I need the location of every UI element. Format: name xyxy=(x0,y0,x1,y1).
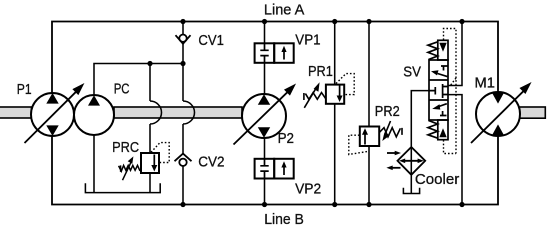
svg-text:PR2: PR2 xyxy=(375,104,400,120)
svg-text:VP2: VP2 xyxy=(295,181,321,197)
svg-text:CV1: CV1 xyxy=(198,33,224,49)
svg-text:Cooler: Cooler xyxy=(415,172,459,188)
svg-text:PR1: PR1 xyxy=(308,64,333,80)
svg-text:P2: P2 xyxy=(278,131,294,147)
svg-text:CV2: CV2 xyxy=(198,154,224,170)
svg-text:PC: PC xyxy=(114,82,130,98)
svg-text:Line B: Line B xyxy=(264,212,304,228)
svg-text:SV: SV xyxy=(403,65,421,81)
svg-text:Line A: Line A xyxy=(264,3,305,19)
svg-text:M1: M1 xyxy=(475,76,496,92)
svg-text:P1: P1 xyxy=(17,82,32,98)
svg-text:VP1: VP1 xyxy=(295,33,320,49)
svg-text:PRC: PRC xyxy=(112,140,139,156)
